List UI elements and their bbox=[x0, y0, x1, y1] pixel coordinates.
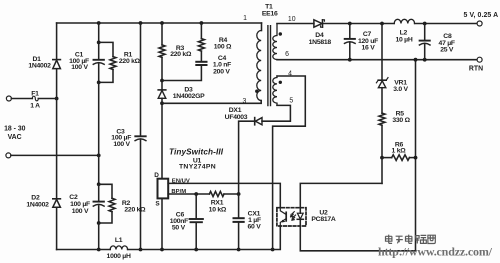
capacitor C7 bbox=[345, 24, 356, 60]
capacitor C4 bbox=[196, 62, 206, 65]
svg-text:1N5818: 1N5818 bbox=[309, 39, 332, 46]
node junction top rail at C1 bbox=[97, 21, 101, 25]
node junction C7 bottom bbox=[348, 58, 352, 62]
svg-text:TinySwitch-III: TinySwitch-III bbox=[169, 148, 224, 157]
wire C2 leads bbox=[98, 184, 100, 223]
wire C2 to ground rail bbox=[98, 223, 100, 250]
node junction F1/D1/D2 bbox=[55, 97, 59, 101]
transformer T1 bias winding bbox=[273, 76, 277, 105]
wire EN/UV to opto bbox=[168, 183, 280, 207]
wire C3 top lead bbox=[140, 23, 142, 136]
node junction midpoint bbox=[97, 154, 101, 158]
svg-text:25 V: 25 V bbox=[440, 47, 454, 54]
transformer T1 primary winding bbox=[257, 31, 261, 101]
node junction C1/R1 bottom bbox=[97, 81, 101, 85]
wire C1C2 column middle bbox=[98, 82, 100, 184]
wire fuse to D1 node bbox=[38, 98, 56, 100]
node junction C8 bottom bbox=[423, 58, 427, 62]
wire R6 right lead bbox=[409, 157, 415, 159]
wire R1 bottom branch bbox=[99, 70, 113, 83]
svg-text:220 kΩ: 220 kΩ bbox=[124, 207, 146, 214]
wire D2 anode to ground rail bbox=[56, 207, 58, 249]
node junction top rail at R3 bbox=[160, 21, 164, 25]
node junction VR1 top bbox=[380, 22, 384, 26]
wire R4 to C4 bbox=[200, 51, 202, 61]
wire C6 bottom lead bbox=[195, 223, 197, 250]
wire CX1 bottom lead bbox=[238, 223, 240, 250]
wire BP/M to RX1 bbox=[168, 193, 209, 195]
inductor L2 bbox=[394, 19, 414, 23]
resistor R4 bbox=[198, 39, 204, 51]
transistor Q opto phototransistor bbox=[280, 208, 286, 226]
resistor R2 bbox=[109, 198, 115, 212]
wire primary top lead bbox=[261, 23, 263, 31]
terminal input bottom bbox=[6, 153, 11, 158]
wire VR1 top lead bbox=[381, 24, 383, 80]
svg-text:3: 3 bbox=[242, 98, 246, 105]
resistor R1 bbox=[110, 57, 116, 70]
node junction drain bbox=[160, 101, 164, 105]
wire C1 top lead bbox=[98, 23, 100, 59]
wire C1 bottom lead bbox=[98, 64, 100, 82]
diode DX1 bbox=[255, 118, 262, 125]
wire CX1 top lead bbox=[238, 194, 240, 218]
wire D2 cathode lead bbox=[56, 99, 58, 199]
svg-text:F1: F1 bbox=[31, 91, 39, 98]
wire R6 left lead bbox=[382, 157, 392, 159]
wire L2 to output terminal bbox=[415, 23, 477, 25]
terminal input top bbox=[6, 96, 11, 101]
svg-text:60 V: 60 V bbox=[248, 224, 262, 231]
wire ground rail left bbox=[57, 249, 111, 251]
resistor R3 bbox=[159, 45, 165, 57]
svg-text:1 A: 1 A bbox=[30, 103, 40, 110]
svg-text:100 V: 100 V bbox=[72, 208, 89, 215]
svg-text:http://www.cndzz.com/: http://www.cndzz.com/ bbox=[378, 245, 493, 259]
svg-text:3.0 V: 3.0 V bbox=[393, 86, 408, 93]
node junction top rail at R4 bbox=[200, 21, 204, 25]
svg-text:330 Ω: 330 Ω bbox=[392, 117, 410, 124]
wire C4 bottom to clamp node bbox=[162, 66, 201, 81]
svg-text:S: S bbox=[155, 201, 160, 208]
wire node A down to LED wire bbox=[381, 158, 383, 184]
node junction B R6/feedback bbox=[414, 156, 418, 160]
capacitor C2 bbox=[93, 202, 104, 207]
wire R5 to node A bbox=[381, 125, 383, 157]
svg-text:5 V, 0.25 A: 5 V, 0.25 A bbox=[464, 12, 499, 19]
resistor R5 bbox=[379, 113, 385, 125]
diode D3 bbox=[158, 81, 166, 104]
svg-text:D: D bbox=[154, 172, 159, 179]
resistor RX1 bbox=[209, 191, 224, 196]
wire R4 top lead bbox=[200, 23, 202, 39]
node junction ground at C6 bbox=[194, 248, 198, 252]
node junction top rail at C3 bbox=[139, 21, 143, 25]
node polarity dot secondary bbox=[279, 32, 282, 35]
diode VR1 zener bbox=[376, 78, 388, 88]
wire D1 column top bbox=[56, 23, 58, 60]
node junction ground at U1 source bbox=[160, 248, 164, 252]
wire DX1 cathode down to BP node bbox=[239, 121, 255, 194]
svg-text:TNY274PN: TNY274PN bbox=[179, 164, 216, 171]
node junction ground at CX1 bbox=[237, 248, 241, 252]
svg-text:1N4002GP: 1N4002GP bbox=[173, 93, 205, 100]
svg-text:6: 6 bbox=[285, 51, 289, 58]
node junction C7 top bbox=[348, 22, 352, 26]
diode D1 bbox=[53, 60, 61, 69]
inductor L1 bbox=[110, 246, 127, 250]
svg-text:EN/UV: EN/UV bbox=[172, 178, 190, 184]
svg-text:D2: D2 bbox=[31, 195, 40, 202]
svg-text:1: 1 bbox=[243, 15, 247, 22]
node junction C2/R2 top bbox=[97, 182, 101, 186]
svg-text:PC817A: PC817A bbox=[311, 216, 336, 223]
node junction C1/R1 top bbox=[97, 41, 101, 45]
wire pin5 to DX1 bbox=[262, 105, 290, 121]
svg-text:100 Ω: 100 Ω bbox=[214, 43, 232, 50]
wire input bottom to C1C2 midpoint bbox=[11, 154, 99, 156]
svg-text:200 V: 200 V bbox=[213, 68, 230, 75]
svg-text:1 kΩ: 1 kΩ bbox=[392, 148, 407, 155]
wire R3 top lead bbox=[161, 23, 163, 45]
node junction C2/R2 bottom bbox=[97, 221, 101, 225]
wire U1 source lead bbox=[161, 198, 163, 249]
capacitor C3 bbox=[135, 136, 146, 140]
wire drain column bbox=[161, 103, 163, 178]
node polarity dot primary bbox=[255, 90, 258, 93]
wire ground rail right bbox=[128, 226, 281, 250]
resistor R6 bbox=[392, 155, 410, 161]
wire R2 bottom branch bbox=[99, 212, 112, 223]
capacitor C6 bbox=[190, 219, 203, 222]
svg-text:100 V: 100 V bbox=[113, 141, 130, 148]
svg-text:EE16: EE16 bbox=[262, 11, 278, 18]
svg-text:10 µH: 10 µH bbox=[395, 37, 412, 44]
node junction C8 top bbox=[423, 22, 427, 26]
fuse F1 bbox=[32, 96, 38, 101]
node junction ground at C2 bbox=[97, 248, 101, 252]
svg-text:1N4002: 1N4002 bbox=[26, 202, 49, 209]
opto U2 dashed box bbox=[277, 208, 306, 226]
svg-text:5: 5 bbox=[289, 98, 293, 105]
terminal output RTN bbox=[477, 57, 482, 62]
diode D4 schottky bbox=[314, 20, 325, 27]
svg-text:10: 10 bbox=[288, 16, 296, 23]
wire pin4 path to ground bbox=[273, 76, 306, 250]
diode U2 LED bbox=[297, 208, 303, 226]
diode D2 bbox=[53, 199, 61, 208]
svg-text:DX1: DX1 bbox=[229, 107, 242, 114]
wire VR1 to R5 bbox=[381, 88, 383, 113]
wire R2 top branch bbox=[99, 184, 112, 198]
svg-text:1000 µH: 1000 µH bbox=[107, 253, 131, 260]
node junction ground at C3 bbox=[139, 248, 143, 252]
node junction ground at bias return bbox=[271, 248, 275, 252]
svg-text:50 V: 50 V bbox=[172, 225, 186, 232]
capacitor C8 bbox=[419, 24, 430, 60]
wire pin3 drain to primary bbox=[162, 101, 261, 104]
node junction C6 top bbox=[194, 192, 198, 196]
wire opto LED anode up bbox=[300, 183, 382, 207]
wire opto LED cathode return bbox=[300, 60, 415, 251]
svg-text:220 kΩ: 220 kΩ bbox=[170, 51, 192, 58]
wire input top to fuse bbox=[11, 98, 32, 100]
node polarity dot bias bbox=[279, 81, 282, 84]
op-amp U1 TinySwitch package box bbox=[158, 179, 169, 199]
terminal output 5V bbox=[477, 21, 482, 26]
wire R1 top branch bbox=[99, 42, 113, 56]
wire secondary rail to D4 bbox=[277, 23, 314, 25]
wire RTN rail bbox=[277, 59, 477, 61]
node junction clamp bottom bbox=[160, 79, 164, 83]
node junction A R5/R6 bbox=[380, 156, 384, 160]
svg-text:UF4003: UF4003 bbox=[225, 114, 248, 121]
wire C3 bottom lead bbox=[140, 140, 142, 249]
opto light arrows bbox=[291, 212, 296, 221]
svg-text:L1: L1 bbox=[115, 237, 123, 244]
svg-text:18 - 30: 18 - 30 bbox=[4, 126, 26, 133]
svg-text:1N4002: 1N4002 bbox=[28, 63, 51, 70]
svg-text:16 V: 16 V bbox=[362, 44, 376, 51]
wire RX1 to BP node bbox=[224, 193, 239, 195]
svg-text:220 kΩ: 220 kΩ bbox=[119, 58, 141, 65]
node junction feedback at RTN bbox=[414, 58, 418, 62]
svg-text:4: 4 bbox=[288, 71, 292, 78]
node junction BP/RX1/CX1 bbox=[237, 192, 241, 196]
svg-text:VAC: VAC bbox=[8, 134, 22, 141]
wire D1 anode to F1 node bbox=[56, 69, 58, 99]
svg-text:10 kΩ: 10 kΩ bbox=[209, 206, 227, 213]
wire top rail primary bbox=[57, 22, 262, 24]
watermark chinese bbox=[386, 235, 436, 244]
wire R3 bottom lead bbox=[161, 57, 163, 80]
capacitor C1 bbox=[93, 60, 104, 65]
svg-text:100 V: 100 V bbox=[71, 64, 88, 71]
svg-text:RTN: RTN bbox=[469, 66, 483, 73]
capacitor CX1 bbox=[234, 218, 244, 222]
transformer T1 secondary winding bbox=[273, 24, 277, 60]
transformer T1 core bbox=[268, 26, 271, 106]
wire D4 cathode to L2 bbox=[323, 23, 395, 25]
svg-text:BP/M: BP/M bbox=[171, 189, 186, 195]
wire C6 top lead bbox=[195, 194, 197, 218]
